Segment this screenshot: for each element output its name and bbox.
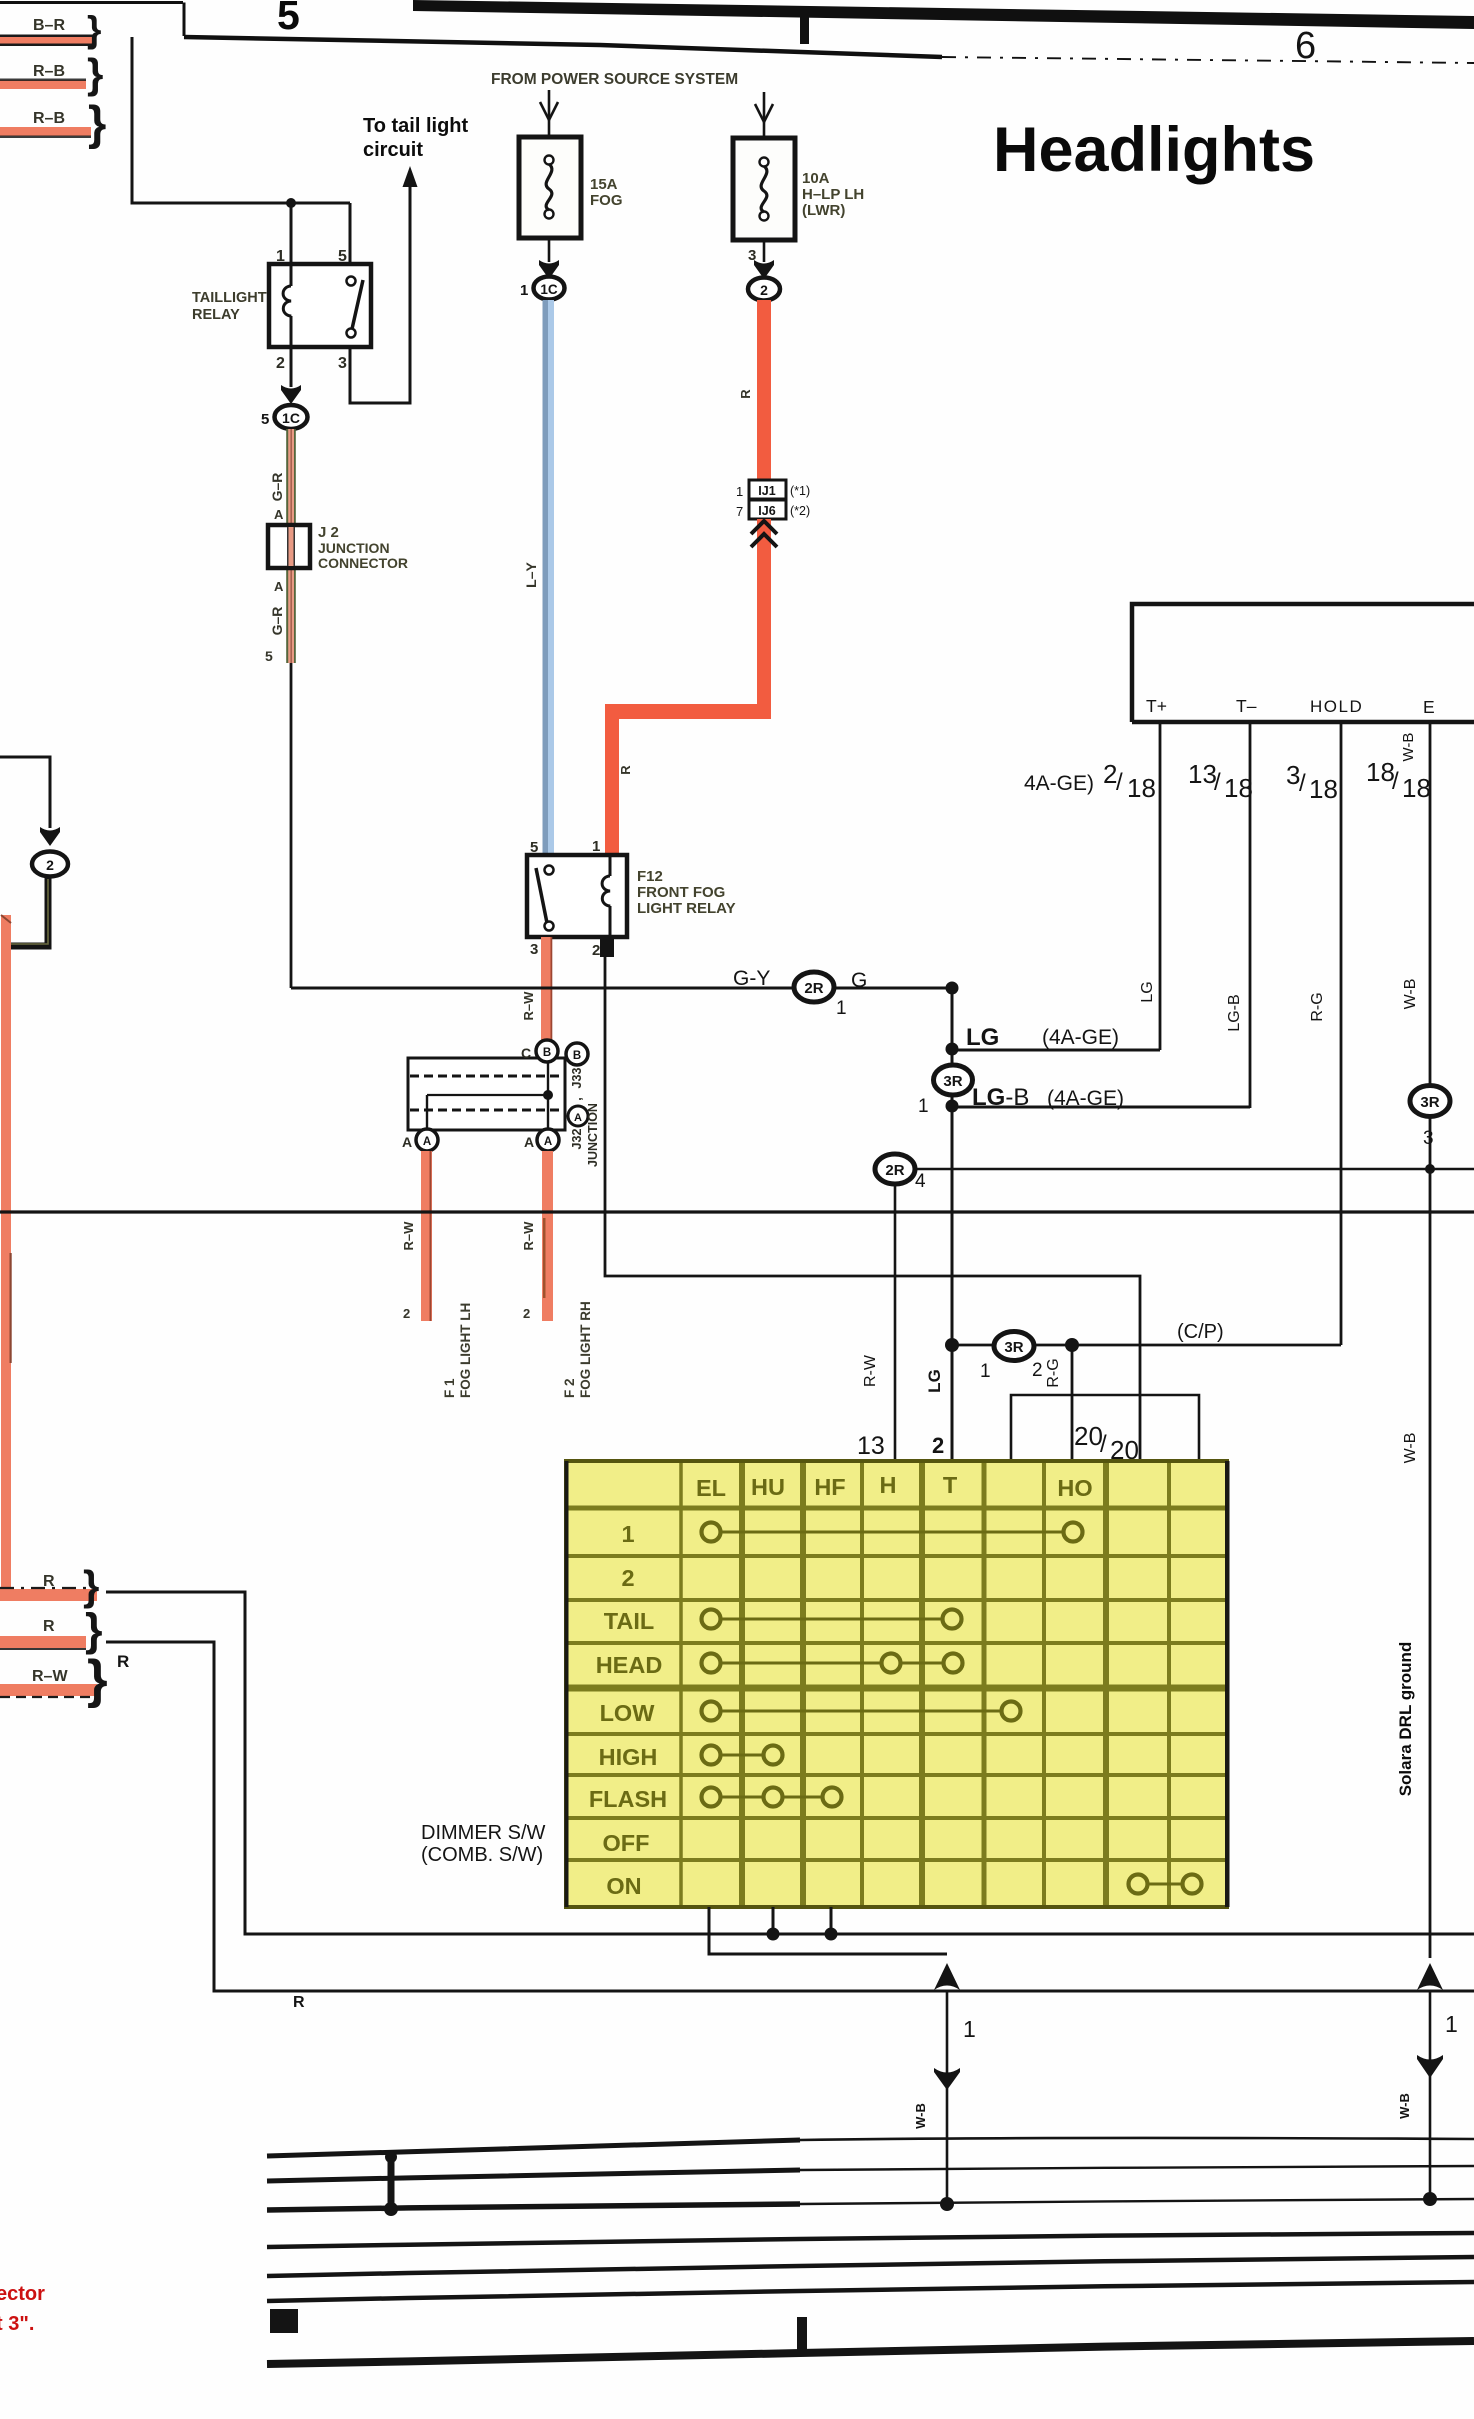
svg-text:2: 2 [621,1565,634,1591]
svg-text:4A-GE): 4A-GE) [1024,772,1094,795]
svg-text:A: A [274,579,284,594]
svg-text:(LWR): (LWR) [802,202,845,219]
svg-text:(*1): (*1) [790,484,810,498]
svg-text:1: 1 [621,1521,634,1547]
svg-text:1C: 1C [540,282,558,297]
svg-text:A: A [524,1134,534,1150]
svg-text:2: 2 [760,282,768,298]
svg-text:R: R [43,1618,55,1635]
svg-text:EL: EL [696,1475,726,1501]
svg-text:1: 1 [276,248,285,265]
svg-text:LIGHT RELAY: LIGHT RELAY [637,900,736,917]
svg-text:B–R: B–R [33,17,65,34]
svg-text:A: A [544,1136,552,1148]
svg-text:J33: J33 [570,1068,584,1089]
svg-text:To tail light: To tail light [363,115,469,137]
svg-text:HOLD: HOLD [1310,697,1363,716]
svg-text:18: 18 [1224,773,1253,803]
svg-text:/: / [1214,769,1221,796]
svg-text:13: 13 [1188,759,1217,789]
svg-text:/: / [1299,770,1306,797]
svg-text:ON: ON [606,1873,641,1899]
svg-text:t 3".: t 3". [0,2313,34,2335]
svg-text:JUNCTION: JUNCTION [586,1103,600,1167]
svg-text:F 1: F 1 [442,1378,457,1398]
svg-text:HO: HO [1057,1475,1092,1501]
svg-text:R–W: R–W [521,1221,536,1251]
svg-text:1C: 1C [282,410,300,426]
svg-text:1: 1 [736,484,743,499]
svg-text:R: R [117,1652,129,1671]
svg-text:G–R: G–R [269,607,285,636]
svg-text:B: B [543,1047,551,1059]
svg-text:W-B: W-B [913,2103,928,2129]
svg-text:LG: LG [925,1369,944,1393]
svg-text:G-Y: G-Y [733,967,770,990]
svg-text:H: H [880,1472,897,1498]
svg-text:5: 5 [530,839,538,856]
svg-text:2: 2 [932,1433,944,1458]
svg-text:TAILLIGHT: TAILLIGHT [192,290,267,306]
svg-text:10A: 10A [802,170,830,187]
svg-text:}: } [87,1650,108,1709]
svg-text:F 2: F 2 [562,1378,577,1398]
svg-text:LOW: LOW [600,1700,656,1726]
svg-text:7: 7 [736,504,743,519]
svg-text:}: } [87,50,103,97]
svg-text:R: R [293,1994,305,2011]
svg-text:T+: T+ [1146,696,1167,716]
svg-text:FOG LIGHT LH: FOG LIGHT LH [458,1303,473,1398]
svg-text:HU: HU [751,1474,785,1500]
svg-text:TAIL: TAIL [604,1608,654,1634]
svg-text:3R: 3R [1420,1094,1439,1111]
svg-text:B: B [573,1050,581,1062]
svg-text:18: 18 [1402,773,1431,803]
svg-text:FOG: FOG [590,192,623,209]
svg-text:ector: ector [0,2283,45,2305]
svg-text:R–W: R–W [521,991,536,1021]
svg-text:C: C [521,1045,531,1061]
svg-text:IJ1: IJ1 [758,484,775,498]
svg-text:3: 3 [530,941,538,958]
svg-text:A: A [423,1136,431,1148]
svg-text:R–B: R–B [33,63,65,80]
svg-text:1: 1 [963,2016,976,2042]
svg-text:1: 1 [980,1361,991,1382]
svg-text:4: 4 [915,1171,926,1192]
svg-text:H–LP LH: H–LP LH [802,186,864,203]
svg-text:CONNECTOR: CONNECTOR [318,555,408,571]
svg-text:/: / [1116,769,1123,796]
svg-text:R–W: R–W [401,1221,416,1251]
svg-text:2: 2 [46,857,54,873]
svg-text:LG-B: LG-B [1226,994,1243,1031]
svg-text:5: 5 [261,411,269,428]
svg-text:5: 5 [277,0,300,38]
svg-text:3R: 3R [943,1073,962,1090]
svg-text:A: A [274,507,284,522]
svg-text:circuit: circuit [363,139,423,161]
svg-text:A: A [574,1112,582,1124]
svg-text:(COMB. S/W): (COMB. S/W) [421,1844,543,1866]
svg-text:18: 18 [1309,774,1338,804]
svg-text:5: 5 [338,248,347,265]
svg-text:T–: T– [1236,696,1257,716]
svg-text:2: 2 [1032,1360,1043,1381]
svg-text:2: 2 [592,942,600,959]
svg-text:LG: LG [1139,981,1156,1002]
svg-text:RELAY: RELAY [192,307,240,323]
svg-text:JUNCTION: JUNCTION [318,540,390,556]
svg-text:HF: HF [814,1474,845,1500]
svg-text:1: 1 [836,998,847,1019]
svg-text:HIGH: HIGH [599,1744,658,1770]
svg-text:A: A [402,1134,412,1150]
svg-text:J 2: J 2 [318,524,339,541]
svg-text:G–R: G–R [269,473,285,502]
svg-text:OFF: OFF [603,1830,650,1856]
svg-text:(4A-GE): (4A-GE) [1047,1087,1124,1110]
svg-text:L–Y: L–Y [523,562,539,588]
svg-text:5: 5 [265,648,273,664]
svg-text:R-G: R-G [1309,992,1326,1021]
svg-text:13: 13 [857,1432,885,1460]
svg-text:IJ6: IJ6 [758,504,775,518]
svg-text:1: 1 [592,838,600,855]
svg-text:1: 1 [918,1096,929,1117]
svg-text:2R: 2R [804,980,823,997]
svg-text:20: 20 [1074,1421,1103,1451]
svg-text:W-B: W-B [1397,2093,1412,2119]
svg-text:FLASH: FLASH [589,1786,667,1812]
svg-text:2: 2 [523,1306,530,1321]
svg-text:W-B: W-B [1402,979,1419,1010]
svg-text:3R: 3R [1004,1339,1023,1356]
svg-text:(C/P): (C/P) [1177,1321,1224,1343]
svg-text:W-B: W-B [1400,733,1417,762]
svg-text:18: 18 [1366,757,1395,787]
svg-text:J32: J32 [570,1129,584,1150]
svg-text:,: , [570,1097,584,1100]
svg-text:FRONT FOG: FRONT FOG [637,884,725,901]
svg-text:2R: 2R [885,1162,904,1179]
svg-text:Headlights: Headlights [993,115,1315,185]
svg-text:LG: LG [966,1024,999,1051]
svg-text:DIMMER S/W: DIMMER S/W [421,1822,546,1844]
svg-text:FOG LIGHT RH: FOG LIGHT RH [578,1301,593,1398]
svg-text:(*2): (*2) [790,504,810,518]
svg-text:2: 2 [276,355,285,372]
svg-text:3: 3 [338,355,347,372]
svg-text:HEAD: HEAD [596,1652,663,1678]
svg-text:W-B: W-B [1402,1433,1419,1464]
svg-text:(4A-GE): (4A-GE) [1042,1026,1119,1049]
svg-text:R–W: R–W [32,1668,68,1685]
svg-text:Solara DRL ground: Solara DRL ground [1396,1642,1415,1797]
svg-text:3: 3 [1423,1128,1434,1149]
svg-text:}: } [88,96,106,149]
svg-text:R–B: R–B [33,110,65,127]
svg-text:R-G: R-G [1045,1358,1062,1387]
svg-text:}: } [87,9,101,50]
svg-text:15A: 15A [590,176,618,193]
svg-text:R: R [738,389,753,399]
svg-text:}: } [85,1604,103,1655]
svg-text:18: 18 [1127,773,1156,803]
svg-text:LG-B: LG-B [972,1084,1029,1111]
svg-text:}: } [83,1562,99,1609]
svg-text:E: E [1423,697,1435,717]
svg-text:F12: F12 [637,868,663,885]
svg-text:FROM POWER SOURCE SYSTEM: FROM POWER SOURCE SYSTEM [491,71,738,88]
svg-text:2: 2 [403,1306,410,1321]
svg-text:R: R [618,765,633,775]
svg-text:6: 6 [1295,25,1316,67]
svg-text:/: / [1100,1431,1107,1458]
svg-text:R-W: R-W [862,1354,879,1387]
svg-text:1: 1 [520,282,528,299]
svg-text:/: / [1392,768,1399,795]
svg-text:T: T [943,1472,958,1498]
svg-text:1: 1 [1445,2011,1458,2037]
